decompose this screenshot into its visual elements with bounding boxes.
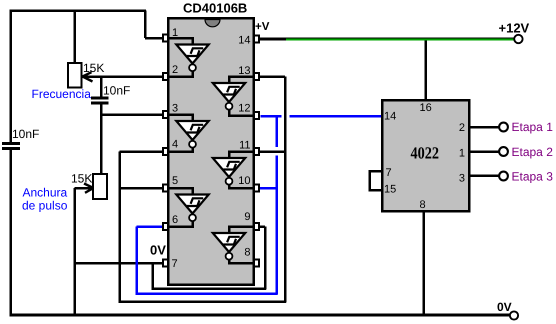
wire — [144, 11, 147, 39]
U1 pin 11 — [254, 148, 259, 155]
wire C2 top drop — [100, 77, 103, 99]
IC U1 CD40106B body — [168, 18, 254, 285]
svg-text:7: 7 — [172, 258, 178, 270]
resistor R1 15K potentiometer (Frecuencia) — [68, 63, 82, 88]
svg-text:10nF: 10nF — [12, 127, 39, 141]
svg-text:10nF: 10nF — [103, 84, 130, 98]
U1 pin 8 — [254, 259, 259, 266]
wire pin9 stub — [253, 225, 265, 228]
svg-text:7: 7 — [386, 167, 392, 179]
wire 4022 pin8 to 0V rail — [422, 210, 425, 316]
svg-text:Etapa 2: Etapa 2 — [512, 145, 554, 159]
wire pin6 stub (blue) — [137, 225, 164, 228]
svg-text:3: 3 — [172, 103, 178, 115]
svg-text:12: 12 — [238, 103, 250, 115]
svg-text:4022: 4022 — [411, 144, 440, 163]
wire bottom 0V rail — [9, 314, 510, 317]
wire 4022 pins 7-15 strap — [370, 171, 383, 190]
wire pin10 stub (blue) — [260, 187, 278, 190]
U1 notch — [205, 20, 220, 27]
svg-text:16: 16 — [420, 102, 432, 114]
op-amp U1E schmitt inverter (11-10) — [228, 150, 253, 153]
U1 pin 4 — [163, 148, 168, 155]
svg-text:15: 15 — [384, 184, 396, 196]
svg-text:+12V: +12V — [499, 20, 530, 35]
svg-text:1: 1 — [459, 148, 465, 160]
svg-text:Etapa 3: Etapa 3 — [512, 170, 554, 184]
wire pin11 stub — [253, 150, 286, 153]
svg-text:10: 10 — [238, 175, 250, 187]
wire 4022 pin1 stub — [468, 150, 500, 153]
wire pin4 stub — [120, 150, 164, 153]
svg-text:11: 11 — [239, 140, 250, 152]
wire blue vertical upper (pin12 branch) — [275, 116, 278, 147]
wire left rail lower (C1 bottom to 0V) — [9, 148, 12, 316]
R2 wiper arrow — [84, 184, 94, 193]
svg-text:13: 13 — [238, 65, 250, 77]
wire inner black rail (0V to pin9) — [151, 287, 266, 290]
wire bottom blue rail — [135, 292, 277, 295]
svg-text:4: 4 — [172, 139, 178, 151]
resistor R2 15K potentiometer (Anchura de pulso) — [93, 174, 107, 199]
svg-text:0V: 0V — [497, 300, 512, 314]
svg-text:Etapa 1: Etapa 1 — [512, 120, 554, 134]
op-amp U1C schmitt inverter (5-6) — [168, 187, 194, 190]
U1 pin 9 — [254, 223, 259, 230]
wire R2 wiper horizontal — [75, 187, 93, 190]
wire 0V to pin7 — [75, 262, 164, 265]
terminal Etapa 2 — [499, 147, 508, 156]
U1 pin 12 — [254, 112, 259, 119]
wire pin3 net — [101, 113, 163, 116]
U1 pin 7 — [163, 259, 168, 266]
wire pin14 +V stub — [260, 38, 286, 41]
U1 pin 5 — [163, 184, 168, 191]
wire 4022 pin16 to +12V net — [424, 39, 427, 101]
wire bottom black rail (pins 4/5 to 11/13) — [118, 300, 286, 303]
svg-text:8: 8 — [420, 199, 426, 211]
capacitor C1 10nF bottom plate — [2, 147, 20, 150]
op-amp U1B schmitt inverter (3-4) — [168, 113, 194, 116]
wire +12V supply (green) — [260, 37, 515, 39]
U1 pin 2 — [163, 73, 168, 80]
R1 wiper arrow — [83, 72, 93, 81]
svg-text:+V: +V — [255, 21, 270, 33]
op-amp U1D schmitt inverter (9-8) — [228, 225, 253, 228]
svg-text:3: 3 — [459, 173, 465, 185]
U1 pin 3 — [163, 111, 168, 118]
wire pin4-pin5 vertical — [118, 152, 121, 303]
wire pin9 vertical — [264, 227, 267, 290]
wire top-left net (pin 1 to C1/R1) — [9, 9, 146, 12]
svg-text:2: 2 — [172, 64, 178, 76]
terminal Etapa 3 — [499, 172, 508, 181]
wire left rail upper (C1 top) — [9, 9, 12, 143]
capacitor C2 10nF bottom plate — [91, 102, 109, 105]
svg-text:Anchura: Anchura — [23, 186, 68, 200]
svg-text:0V: 0V — [150, 243, 166, 258]
IC U2 4022 body — [382, 100, 469, 211]
wire — [145, 37, 163, 40]
wire C2 bottom to R2 top — [100, 103, 103, 176]
terminal Etapa 1 — [499, 123, 508, 132]
capacitor C2 10nF top plate — [91, 97, 109, 100]
svg-text:15K: 15K — [71, 172, 92, 186]
wire 4022 pin3 stub — [468, 174, 500, 177]
U1 pin 1 — [163, 34, 168, 41]
svg-text:6: 6 — [172, 214, 178, 226]
U1 pin 6 — [163, 223, 168, 230]
op-amp U1F schmitt inverter (13-12) — [228, 75, 253, 78]
U1 pin 14 — [254, 35, 259, 42]
capacitor C1 10nF top plate — [2, 142, 20, 145]
wire R2 wiper to 0V rail — [73, 188, 76, 316]
U1 pin 10 — [254, 184, 259, 191]
svg-text:2: 2 — [459, 122, 465, 134]
wire blue vertical lower — [275, 156, 278, 295]
wire R1 top drop — [73, 9, 76, 64]
wire 0V tap down — [151, 263, 154, 290]
svg-text:de pulso: de pulso — [22, 199, 68, 213]
wire 4022 pin2 stub — [468, 126, 500, 129]
wire pin12 clock net (blue) — [261, 115, 282, 118]
svg-text:15K: 15K — [83, 61, 104, 75]
terminal 0V — [510, 311, 518, 319]
wire pin13-pin11 vertical — [284, 77, 287, 303]
svg-text:9: 9 — [244, 211, 250, 223]
svg-text:CD40106B: CD40106B — [183, 1, 247, 16]
wire pin5 stub — [120, 187, 164, 190]
wire pin2 / R1 wiper net — [82, 75, 163, 78]
terminal +12V — [514, 35, 522, 43]
svg-text:1: 1 — [172, 27, 178, 39]
wire pin6 vertical (blue) — [135, 227, 138, 295]
svg-text:14: 14 — [238, 35, 250, 47]
svg-text:14: 14 — [384, 111, 396, 123]
svg-text:Frecuencia: Frecuencia — [32, 87, 92, 101]
svg-text:8: 8 — [244, 247, 250, 259]
U1 pin 13 — [254, 73, 259, 80]
wire clock net to 4022 pin14 (blue) — [289, 115, 383, 118]
op-amp U1A schmitt inverter (1-2) — [168, 37, 194, 40]
svg-text:5: 5 — [172, 175, 178, 187]
wire pin13 stub — [253, 75, 285, 78]
